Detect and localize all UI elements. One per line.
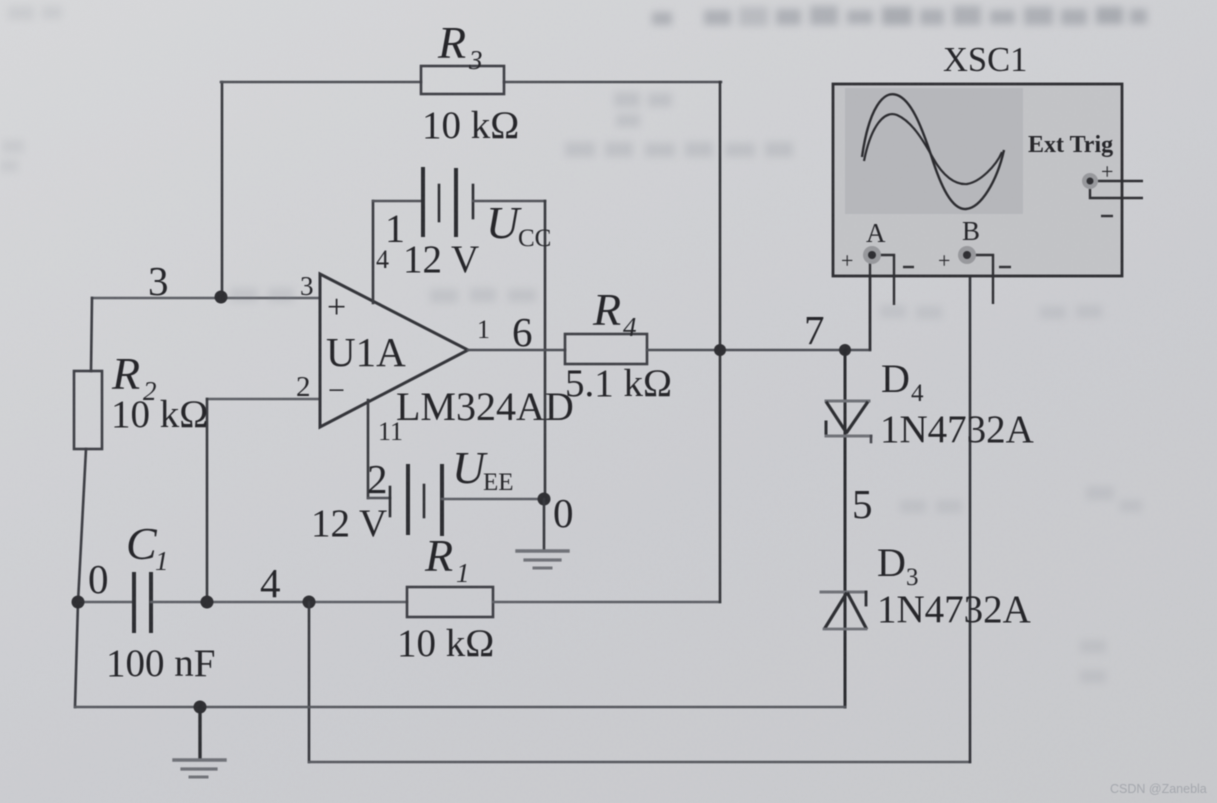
terminal A stub bbox=[880, 255, 894, 305]
label R3 bbox=[437, 17, 483, 75]
terminal A bbox=[863, 246, 881, 264]
wire inverting input bbox=[207, 399, 320, 602]
battery UEE bbox=[390, 466, 442, 534]
junction dot node 4 bbox=[303, 596, 316, 609]
terminal B bbox=[958, 246, 976, 264]
wire feedback vertical node 7 bbox=[719, 82, 722, 602]
wire UCC battery to right rail bbox=[473, 200, 545, 203]
label R4 bbox=[592, 284, 637, 342]
bleed-through artifacts bbox=[652, 6, 1147, 26]
battery UCC bbox=[423, 169, 473, 235]
terminal ext trig lines bbox=[1090, 181, 1143, 216]
junction dot node 7 diode bbox=[839, 344, 851, 356]
zener diode D4 bbox=[826, 401, 871, 442]
resistor R1 bbox=[407, 587, 493, 617]
label D3 bbox=[877, 540, 919, 591]
wire op-amp pin4 to UCC battery bbox=[373, 201, 423, 303]
label R1 bbox=[424, 530, 470, 588]
label D4 bbox=[881, 356, 924, 407]
junction dot node 2 / inverting bbox=[201, 596, 214, 609]
wire right power rail bbox=[544, 201, 547, 499]
wire scope A to node 7 bbox=[869, 262, 871, 350]
junction dot ground bottom bbox=[194, 701, 207, 714]
terminal B minus dash bbox=[999, 266, 1011, 268]
label R2 bbox=[111, 348, 157, 406]
node 3 junction dot bbox=[215, 291, 228, 304]
op-amp U1A bbox=[320, 274, 468, 427]
scope sine trace 2 bbox=[864, 114, 1002, 184]
scope sine trace 1 bbox=[862, 94, 1004, 209]
oscilloscope XSC1 bbox=[833, 84, 1122, 276]
wire top feedback from node 3 to node 7 bbox=[221, 82, 721, 297]
terminal ext trig bbox=[1082, 173, 1098, 189]
label C1 bbox=[126, 518, 169, 576]
ground bottom left bbox=[174, 707, 225, 777]
wire UEE battery to node 0 bbox=[442, 498, 544, 500]
junction dot C1 left bbox=[72, 596, 85, 609]
wire diode chain bbox=[844, 350, 847, 707]
wire node 7 bbox=[647, 262, 870, 350]
label UCC bbox=[486, 197, 551, 252]
wire op-amp pin11 to UEE battery bbox=[368, 400, 390, 498]
wire left rail bbox=[75, 298, 92, 707]
junction dot node 7 left bbox=[714, 344, 726, 356]
wire op-amp output node 6 bbox=[468, 349, 565, 352]
label UEE bbox=[452, 442, 514, 496]
wire bottom rail upper bbox=[75, 706, 845, 708]
capacitor C1 bbox=[78, 574, 407, 631]
wire bottom rail lower bbox=[309, 262, 970, 762]
resistor R3 bbox=[421, 66, 504, 94]
resistor R4 bbox=[565, 334, 647, 364]
terminal A minus dash bbox=[903, 266, 914, 268]
resistor R2 bbox=[74, 371, 102, 449]
wire R1 right to feedback bbox=[493, 601, 720, 603]
wire node 3 horizontal bbox=[92, 297, 320, 299]
node 0 junction dot bbox=[538, 493, 551, 506]
ground node 0 bbox=[517, 499, 568, 568]
terminal B stub bbox=[975, 255, 993, 304]
zener diode D3 bbox=[821, 592, 866, 629]
